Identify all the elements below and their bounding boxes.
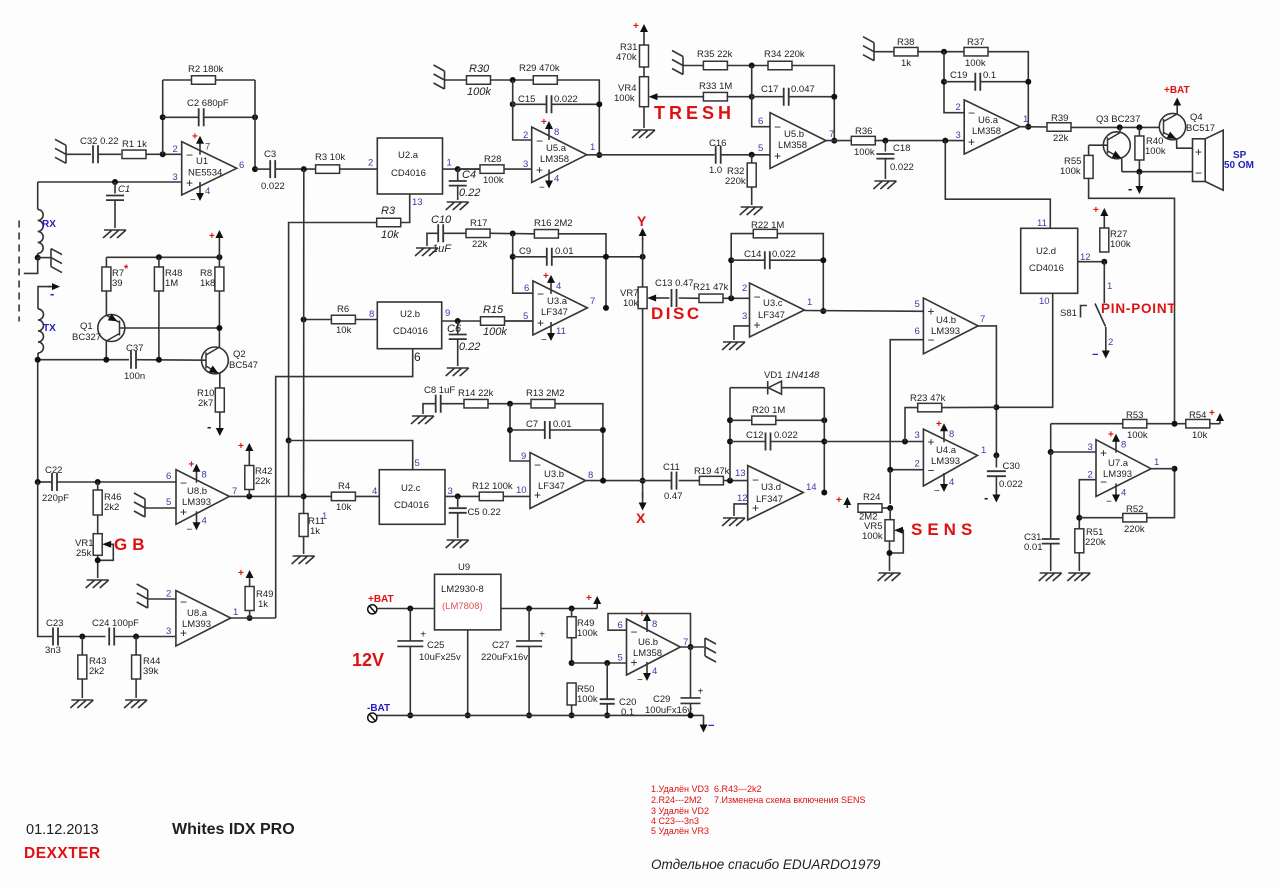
- resistor R39: [1047, 123, 1071, 132]
- node U7.a out: [1172, 466, 1178, 472]
- wire: [882, 507, 890, 509]
- wire: [587, 154, 715, 156]
- wire: [457, 513, 459, 538]
- svg-text:4: 4: [372, 486, 377, 497]
- svg-text:+BAT: +BAT: [368, 594, 394, 605]
- svg-text:R20 1M: R20 1M: [752, 405, 785, 416]
- emitter rail: [1122, 171, 1193, 173]
- ground G14 (C8): [411, 416, 434, 424]
- svg-text:0.22: 0.22: [459, 341, 480, 353]
- rail R7/R48/R8 top: [106, 256, 219, 258]
- wire (U2.d pin10 to U4.b out): [996, 293, 1052, 407]
- capacitor C16: [716, 146, 721, 164]
- node: [1136, 124, 1142, 130]
- +BAT arrow (Q4): [1176, 106, 1178, 114]
- svg-text:C7: C7: [526, 419, 538, 430]
- svg-text:0.01: 0.01: [553, 419, 572, 430]
- wire (feedback left riser): [162, 80, 164, 154]
- svg-text:C37: C37: [126, 343, 143, 354]
- svg-text:R13 2M2: R13 2M2: [526, 388, 565, 399]
- svg-text:3: 3: [166, 626, 171, 637]
- svg-text:0.022: 0.022: [261, 181, 285, 192]
- wire: [490, 232, 534, 235]
- op-amp U5.a LM358: [532, 127, 587, 183]
- svg-text:+: +: [928, 305, 935, 319]
- wire: [504, 168, 532, 170]
- wire: [409, 647, 411, 716]
- resistor R49 (1k): [245, 587, 254, 611]
- node: [455, 318, 461, 324]
- svg-text:U2.c: U2.c: [401, 483, 421, 494]
- junction: [103, 357, 109, 363]
- node: [79, 634, 85, 640]
- svg-text:3: 3: [956, 130, 961, 141]
- svg-text:01.12.2013: 01.12.2013: [26, 822, 99, 838]
- svg-text:C12: C12: [746, 430, 763, 441]
- resistor R24: [858, 504, 882, 513]
- svg-text:2k2: 2k2: [89, 666, 104, 677]
- junction: [407, 606, 413, 612]
- op-amp U7.a LM393: [1096, 440, 1151, 497]
- node: [95, 479, 101, 485]
- junction: [821, 417, 827, 423]
- svg-text:+: +: [633, 21, 639, 32]
- wire: [501, 608, 597, 610]
- wire: [488, 403, 531, 405]
- svg-text:0.01: 0.01: [555, 246, 574, 257]
- junction: [465, 712, 471, 718]
- node: [1117, 124, 1123, 130]
- svg-text:6: 6: [414, 350, 421, 364]
- svg-text:U3.c: U3.c: [763, 298, 783, 309]
- svg-text:C22: C22: [45, 465, 62, 476]
- wire: [731, 234, 753, 299]
- ground G24 (R44): [124, 700, 147, 708]
- resistor R28: [480, 165, 504, 174]
- svg-text:+: +: [698, 687, 704, 698]
- ground G15 (R11): [292, 556, 315, 564]
- junction: [526, 606, 532, 612]
- junction: [569, 606, 575, 612]
- svg-text:+: +: [1093, 205, 1099, 216]
- svg-text:9: 9: [445, 308, 450, 319]
- wire: [114, 200, 116, 228]
- svg-text:1.0: 1.0: [709, 165, 722, 176]
- svg-text:C17: C17: [761, 84, 778, 95]
- ground G10 (R38): [863, 37, 874, 61]
- node: [455, 493, 461, 499]
- svg-text:U7.a: U7.a: [1108, 458, 1129, 469]
- svg-text:LM358: LM358: [972, 126, 1001, 137]
- wire (feedback right riser): [823, 388, 825, 493]
- node: [507, 401, 513, 407]
- wire: [723, 480, 747, 482]
- junction: [749, 152, 755, 158]
- main osc wire: [38, 359, 129, 361]
- wire (R38 node down): [944, 52, 964, 113]
- junction: [510, 254, 516, 260]
- svg-text:R22 1M: R22 1M: [751, 220, 784, 231]
- resistor R2: [163, 79, 191, 81]
- wire: [457, 339, 459, 366]
- node: [887, 550, 893, 556]
- U4.a power pin 8: [943, 429, 945, 442]
- op-amp U3.c LF347: [750, 283, 805, 337]
- svg-text:U9: U9: [458, 562, 470, 573]
- svg-text:+: +: [1100, 446, 1107, 460]
- IC U9 LM2930-8: [435, 574, 501, 630]
- wire: [255, 168, 270, 170]
- wire: [642, 309, 644, 498]
- svg-text:LM358: LM358: [778, 140, 807, 151]
- inductor TX coil: [38, 309, 44, 353]
- resistor R13: [531, 399, 555, 408]
- svg-text:R17: R17: [470, 218, 487, 229]
- svg-text:1: 1: [590, 142, 595, 153]
- wire (U8.b out to node): [229, 495, 303, 497]
- svg-text:C11: C11: [663, 462, 680, 473]
- resistor R49 (100k): [571, 609, 573, 617]
- wire (pin3 node to U2.d pin11): [945, 141, 1050, 229]
- svg-text:13: 13: [735, 468, 746, 479]
- junction: [112, 179, 118, 185]
- wire: [340, 168, 378, 170]
- svg-text:U4.b: U4.b: [936, 315, 956, 326]
- svg-text:8: 8: [652, 619, 657, 630]
- U4.a power pin 4: [943, 473, 945, 486]
- svg-text:R35 22k: R35 22k: [697, 49, 733, 60]
- node U3.d out: [821, 490, 827, 496]
- wire (Q1 base line): [125, 327, 220, 329]
- ground G8 (R35): [672, 51, 683, 75]
- svg-text:3: 3: [742, 311, 747, 322]
- svg-text:-BAT: -BAT: [367, 703, 390, 714]
- resistor R29: [533, 76, 557, 85]
- node: [133, 634, 139, 640]
- wire: [427, 233, 439, 246]
- junction: [160, 114, 166, 120]
- junction: [507, 427, 513, 433]
- -BAT arrow (emitter rail): [1138, 172, 1140, 188]
- node: [887, 505, 893, 511]
- node: [1172, 421, 1178, 427]
- resistor R4: [304, 495, 332, 497]
- svg-text:C32 0.22: C32 0.22: [80, 136, 119, 147]
- wire (pin5 gnd stub): [145, 507, 176, 509]
- svg-text:4: 4: [949, 477, 954, 488]
- wire (pin12): [1078, 261, 1105, 263]
- svg-text:4: 4: [205, 186, 210, 197]
- svg-text:1: 1: [233, 607, 238, 618]
- svg-text:2k2: 2k2: [104, 502, 119, 513]
- wire (R28 line): [458, 168, 481, 170]
- ground G3 (RX): [38, 257, 51, 259]
- capacitor C1: [114, 182, 116, 194]
- wire (Q2 emitter): [219, 374, 220, 388]
- svg-text:TX: TX: [43, 323, 56, 334]
- svg-text:LM393: LM393: [1103, 469, 1132, 480]
- node: [246, 493, 252, 499]
- resistor R48: [158, 257, 160, 267]
- resistor R12: [479, 492, 503, 501]
- capacitor C3: [270, 160, 275, 178]
- svg-text:2: 2: [956, 102, 961, 113]
- resistor R35: [703, 61, 727, 70]
- wire: [642, 238, 644, 287]
- X arrow: [642, 492, 644, 505]
- svg-text:R14 22k: R14 22k: [458, 388, 494, 399]
- wire (R7 to Q1): [105, 291, 107, 315]
- op-amp U3.b LF347: [530, 453, 586, 509]
- svg-text:U4.a: U4.a: [936, 445, 957, 456]
- svg-text:1: 1: [1107, 281, 1112, 292]
- svg-text:U5.a: U5.a: [546, 143, 567, 154]
- svg-text:U1: U1: [196, 156, 208, 167]
- svg-text:6.R43---2k2: 6.R43---2k2: [714, 784, 762, 794]
- wire: [558, 234, 606, 308]
- svg-text:22k: 22k: [472, 239, 488, 250]
- capacitor C32: [93, 145, 98, 163]
- svg-text:+: +: [536, 163, 543, 177]
- svg-text:U2.a: U2.a: [398, 150, 419, 161]
- svg-text:3: 3: [915, 430, 920, 441]
- wire: [423, 404, 436, 414]
- svg-text:2: 2: [368, 158, 373, 169]
- svg-text:R54: R54: [1189, 410, 1206, 421]
- svg-text:8: 8: [1121, 440, 1126, 451]
- svg-text:C16: C16: [709, 138, 726, 149]
- svg-text:0.047: 0.047: [791, 84, 815, 95]
- svg-text:100k: 100k: [483, 326, 507, 338]
- U1 power pin 7: [199, 142, 201, 155]
- svg-text:R4: R4: [338, 481, 350, 492]
- op-amp U3.d LF347: [748, 466, 804, 521]
- capacitor C37: [131, 351, 136, 369]
- junction: [728, 257, 734, 263]
- svg-text:+: +: [586, 593, 592, 604]
- resistor R19: [699, 476, 723, 485]
- svg-text:100n: 100n: [124, 371, 145, 382]
- node: [1048, 449, 1054, 455]
- svg-text:C23: C23: [46, 618, 63, 629]
- svg-text:LM393: LM393: [931, 456, 960, 467]
- svg-text:R24: R24: [863, 492, 880, 503]
- node U3.c out: [820, 308, 826, 314]
- svg-text:-: -: [1128, 181, 1132, 196]
- wire: [505, 320, 533, 322]
- ground G12 (C10): [415, 248, 438, 256]
- svg-text:12V: 12V: [352, 650, 384, 670]
- svg-text:Q4: Q4: [1190, 112, 1203, 123]
- svg-text:6: 6: [618, 620, 623, 631]
- svg-text:3: 3: [1088, 442, 1093, 453]
- wire (U3.b out): [586, 480, 672, 482]
- capacitor C19: [944, 81, 976, 83]
- wire (C9 left riser): [513, 234, 533, 294]
- svg-text:LM358: LM358: [633, 648, 662, 659]
- resistor R16: [534, 230, 558, 239]
- wire: [1050, 544, 1052, 572]
- wire: [97, 515, 99, 534]
- node: [688, 644, 694, 650]
- U3.a power pin 11: [550, 322, 552, 335]
- ground G23 (R43): [70, 700, 93, 708]
- resistor R42: [245, 466, 254, 490]
- svg-text:−: −: [752, 473, 759, 487]
- wire: [248, 490, 250, 497]
- svg-text:C9: C9: [519, 246, 531, 257]
- resistor R11: [299, 514, 308, 537]
- wire: [723, 297, 750, 299]
- svg-text:PIN-POINT: PIN-POINT: [1101, 301, 1176, 316]
- svg-text:1k: 1k: [310, 526, 320, 537]
- IC U2.d CD4016: [1021, 228, 1078, 293]
- junction: [600, 427, 606, 433]
- wire (pin13 drop): [401, 194, 410, 223]
- node RX cold end: [35, 255, 41, 261]
- junction: [156, 357, 162, 363]
- svg-text:8: 8: [202, 470, 207, 481]
- node: [727, 478, 733, 484]
- svg-text:R23 47k: R23 47k: [910, 393, 946, 404]
- svg-text:220uFx16v: 220uFx16v: [481, 652, 528, 663]
- ground G25 (U8.a pin2): [137, 584, 148, 608]
- -BAT arrow (C30): [995, 477, 997, 497]
- wire: [917, 51, 964, 53]
- svg-text:2: 2: [1088, 470, 1093, 481]
- svg-text:CD4016: CD4016: [391, 168, 426, 179]
- resistor R30: [467, 76, 491, 85]
- svg-text:9: 9: [521, 451, 526, 462]
- svg-text:1: 1: [1154, 457, 1159, 468]
- svg-text:4: 4: [652, 666, 657, 677]
- svg-text:100k: 100k: [614, 93, 635, 104]
- junction: [596, 101, 602, 107]
- svg-text:5 Удалён VR3: 5 Удалён VR3: [651, 826, 709, 836]
- wire: [884, 159, 886, 179]
- svg-text:R30: R30: [469, 63, 490, 75]
- wire: [679, 480, 700, 482]
- +BAT arrow (oscillator): [218, 236, 220, 257]
- svg-text:C25: C25: [427, 640, 444, 651]
- wire: [37, 353, 39, 360]
- resistor R54: [1186, 419, 1210, 428]
- wire (ctrl to U2.c pin5): [289, 441, 413, 470]
- wire: [503, 495, 530, 497]
- capacitor C6: [457, 321, 459, 334]
- capacitor C5: [457, 496, 459, 507]
- junction: [252, 114, 258, 120]
- wire: [249, 611, 251, 619]
- svg-text:5: 5: [618, 653, 623, 664]
- wire (ctrl down to U8.b out): [288, 441, 290, 497]
- svg-text:R6: R6: [337, 304, 349, 315]
- svg-text:0.1: 0.1: [983, 70, 996, 81]
- svg-text:R39: R39: [1051, 113, 1068, 124]
- wire: [679, 297, 699, 299]
- wire: [1105, 327, 1107, 341]
- inductor RX coil: [38, 209, 44, 253]
- wire (Q4 emitter to speaker): [1177, 139, 1193, 148]
- svg-text:U3.d: U3.d: [761, 482, 781, 493]
- node U5.b out: [831, 138, 837, 144]
- svg-text:10k: 10k: [336, 502, 352, 513]
- svg-text:R37: R37: [967, 37, 984, 48]
- capacitor C18: [884, 141, 886, 152]
- svg-text:100k: 100k: [965, 58, 986, 69]
- svg-text:-: -: [207, 419, 211, 434]
- transistor Q1 BC327: [98, 315, 125, 342]
- wire (VR7 wiper): [656, 297, 669, 299]
- junction: [510, 101, 516, 107]
- wire: [777, 234, 823, 311]
- wire: [457, 186, 459, 200]
- wire (U1 bias rail): [303, 169, 305, 514]
- wire: [1078, 553, 1080, 571]
- wire: [727, 65, 769, 67]
- svg-text:C13 0.47: C13 0.47: [655, 278, 694, 289]
- svg-text:8: 8: [369, 309, 374, 320]
- wire: [98, 153, 121, 155]
- svg-text:C5 0.22: C5 0.22: [468, 507, 501, 518]
- svg-text:RX: RX: [42, 219, 56, 230]
- junction: [820, 257, 826, 263]
- svg-text:22k: 22k: [255, 476, 271, 487]
- U5.a power pin 4: [548, 170, 550, 183]
- wire: [491, 79, 533, 81]
- svg-text:CD4016: CD4016: [1029, 263, 1064, 274]
- svg-text:CD4016: CD4016: [394, 500, 429, 511]
- wire (VR4 wiper to R33): [658, 96, 705, 98]
- svg-text:1N4148: 1N4148: [786, 370, 820, 381]
- node U1 output: [252, 166, 258, 172]
- svg-text:100k: 100k: [577, 694, 598, 705]
- node: [821, 439, 827, 445]
- U7.a power pin 8: [1115, 440, 1117, 453]
- junction: [1136, 169, 1142, 175]
- -BAT arrow (rail end): [703, 715, 705, 726]
- svg-text:220k: 220k: [1085, 537, 1106, 548]
- junction: [569, 712, 575, 718]
- capacitor C17: [752, 96, 784, 98]
- svg-text:5: 5: [415, 458, 420, 469]
- U7.a power pin 4: [1115, 484, 1117, 497]
- svg-text:C10: C10: [431, 214, 452, 226]
- svg-text:100k: 100k: [854, 147, 875, 158]
- svg-text:+: +: [1209, 408, 1215, 419]
- node: [749, 94, 755, 100]
- node: [728, 295, 734, 301]
- svg-text:NE5534: NE5534: [188, 168, 222, 179]
- wire (pin9 out): [442, 320, 481, 322]
- wire: [58, 636, 106, 638]
- svg-text:2: 2: [523, 130, 528, 141]
- svg-text:100k: 100k: [1060, 166, 1081, 177]
- svg-text:0.022: 0.022: [772, 249, 796, 260]
- svg-text:R29 470k: R29 470k: [519, 63, 560, 74]
- svg-text:−: −: [536, 134, 543, 148]
- svg-text:C19: C19: [950, 70, 967, 81]
- node: [604, 660, 610, 666]
- svg-text:3n3: 3n3: [45, 645, 61, 656]
- node: [882, 138, 888, 144]
- capacitor C15: [513, 103, 547, 105]
- ground G6 (R32): [740, 207, 763, 215]
- resistor R15: [481, 317, 505, 326]
- svg-text:Y: Y: [637, 213, 647, 229]
- wire: [557, 80, 599, 155]
- node: [35, 479, 41, 485]
